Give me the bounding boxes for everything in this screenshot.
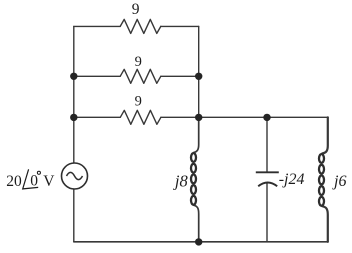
wire row3 left segment bbox=[74, 116, 121, 118]
wire row2 right segment bbox=[161, 75, 199, 77]
junction dot capacitor top bbox=[263, 114, 270, 121]
wire right resistor rail bbox=[198, 26, 200, 117]
resistor R2 zigzag bbox=[120, 69, 161, 83]
degree superscript bbox=[37, 171, 40, 174]
svg-text:9: 9 bbox=[135, 54, 142, 70]
capacitor C1 curved bottom plate bbox=[258, 183, 277, 187]
wire row3 right segment bbox=[161, 116, 199, 118]
wire j8 branch top lead bbox=[194, 117, 199, 152]
resistor R1 zigzag bbox=[120, 19, 161, 33]
wire right rail bottom lead from j6 bbox=[322, 206, 328, 242]
angle symbol stroke bbox=[23, 169, 39, 189]
svg-text:-j24: -j24 bbox=[279, 171, 305, 188]
svg-text:j6: j6 bbox=[332, 173, 346, 190]
source VS sine wave bbox=[67, 172, 83, 179]
svg-text:j8: j8 bbox=[173, 172, 189, 191]
svg-text:V: V bbox=[43, 173, 55, 190]
wire row2 left segment bbox=[74, 75, 120, 77]
wire left rail upper bbox=[73, 26, 75, 163]
svg-text:0: 0 bbox=[30, 173, 38, 190]
junction dot left row3 bbox=[70, 114, 77, 121]
capacitor C1 top plate bbox=[256, 171, 279, 173]
svg-text:9: 9 bbox=[135, 94, 142, 110]
wire top row from left rail to R1 bbox=[74, 25, 120, 27]
inductor L2 j6 coil loops bbox=[319, 154, 324, 206]
inductor L1 j8 coil loops bbox=[191, 153, 196, 205]
wire right rail top lead to j6 bbox=[322, 117, 328, 153]
wire j8 branch bottom lead bbox=[194, 205, 199, 242]
wire top row from R1 to right rail bbox=[161, 25, 199, 27]
svg-text:9: 9 bbox=[132, 1, 140, 18]
svg-text:20: 20 bbox=[6, 173, 22, 190]
junction dot j8 bottom bbox=[195, 238, 202, 245]
wire capacitor branch bottom lead bbox=[266, 184, 268, 242]
wire middle horizontal node bus bbox=[199, 116, 328, 118]
wire capacitor branch top lead bbox=[266, 117, 268, 171]
junction dot right row3 bbox=[195, 114, 202, 121]
wire left rail lower bbox=[73, 189, 75, 242]
junction dot right row2 bbox=[195, 73, 202, 80]
source VS circle bbox=[62, 163, 88, 189]
resistor R3 zigzag bbox=[120, 110, 161, 124]
wire bottom rail bbox=[74, 241, 328, 243]
junction dot left row2 bbox=[70, 73, 77, 80]
